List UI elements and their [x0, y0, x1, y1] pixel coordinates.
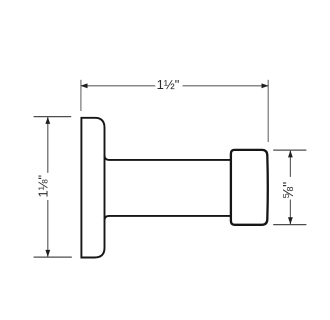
- top dimension extension line right: [267, 80, 269, 142]
- top dimension label 1 1/2 inch: [155, 79, 182, 93]
- left dimension arrow down: [45, 250, 50, 257]
- svg-text:⅝": ⅝": [281, 182, 297, 199]
- right dimension extension line top: [273, 149, 306, 151]
- hook stem bottom line with fillet: [105, 216, 232, 221]
- hook wall plate (flange): [81, 118, 104, 258]
- left dimension extension line bottom: [34, 256, 72, 258]
- right dimension line: [289, 150, 291, 224]
- top dimension arrow left: [81, 83, 88, 88]
- left dimension line: [47, 117, 49, 256]
- svg-text:1⅛": 1⅛": [36, 174, 51, 197]
- top dimension line: [81, 85, 268, 87]
- hook stem top line with fillet: [105, 155, 232, 160]
- top dimension extension line left: [80, 80, 82, 111]
- right dimension label 5/8 inch (rotated): [281, 177, 295, 200]
- left dimension extension line top: [34, 116, 72, 118]
- svg-text:1½": 1½": [157, 77, 180, 92]
- left dimension arrow up: [45, 117, 50, 124]
- right dimension arrow down: [288, 217, 293, 224]
- right dimension extension line bottom: [273, 224, 306, 226]
- top dimension arrow right: [262, 83, 269, 88]
- hook knob (end cap): [231, 150, 268, 225]
- right dimension arrow up: [288, 150, 293, 157]
- left dimension label 1 1/8 inch (rotated): [37, 173, 51, 200]
